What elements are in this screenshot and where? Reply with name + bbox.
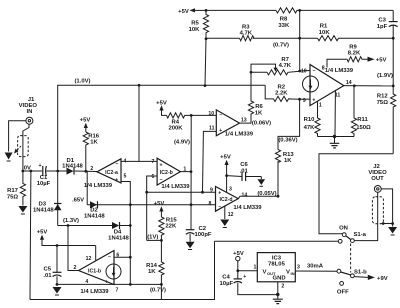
- resistor R1 10K: [318, 24, 339, 41]
- svg-text:47K: 47K: [304, 125, 316, 131]
- +5V terminal for IC2-d: [220, 154, 231, 192]
- capacitor C6 .01: [227, 162, 262, 181]
- svg-text:10: 10: [301, 68, 307, 74]
- svg-text:4.7K: 4.7K: [279, 63, 292, 69]
- svg-text:1/4 LM339: 1/4 LM339: [80, 289, 109, 295]
- svg-text:IN: IN: [291, 271, 295, 276]
- ground IC2-d pin12: [220, 206, 229, 228]
- svg-text:+: +: [219, 128, 222, 134]
- comparator IC2-d: [209, 187, 263, 218]
- comparator IC2-b: [152, 158, 191, 190]
- svg-text:+5V: +5V: [154, 201, 165, 207]
- svg-text:R13: R13: [283, 152, 295, 158]
- svg-text:ON: ON: [339, 226, 348, 232]
- svg-text:R12: R12: [377, 93, 389, 99]
- terminal +5V circle: [233, 251, 244, 271]
- wire pin11 stub down: [334, 91, 336, 137]
- node feedback left vertical: [30, 170, 33, 173]
- shield dashed J2: [372, 197, 383, 224]
- svg-text:1K: 1K: [148, 269, 156, 275]
- node IC3 gnd / C4: [276, 293, 279, 296]
- wire J1 tip stem: [23, 124, 29, 171]
- node R7 left / R6 top: [250, 71, 253, 74]
- svg-text:9: 9: [210, 188, 213, 194]
- svg-text:IC2-a: IC2-a: [105, 170, 118, 176]
- diode D1 1N4148: [62, 158, 83, 175]
- node (1V) R15/R14: [160, 239, 163, 242]
- +5V arrow for R16: [80, 118, 91, 133]
- svg-text:10K: 10K: [189, 27, 201, 33]
- node rail/IC2-a pin4 drop: [138, 84, 141, 87]
- svg-text:R11: R11: [357, 117, 368, 123]
- svg-text:1/4 LM339: 1/4 LM339: [161, 184, 190, 190]
- node X top rail / R8 right: [298, 9, 301, 12]
- wire (1V) branch: [147, 239, 162, 241]
- svg-text:14: 14: [346, 80, 352, 86]
- node IC2-b output: [190, 170, 193, 173]
- svg-text:1N4148: 1N4148: [84, 213, 105, 219]
- svg-text:+5V: +5V: [376, 57, 387, 63]
- svg-text:75Ω: 75Ω: [7, 194, 19, 200]
- svg-text:R5: R5: [191, 20, 199, 26]
- label (0.7V): [273, 42, 289, 48]
- svg-text:+: +: [38, 163, 41, 169]
- svg-text:.65V: .65V: [72, 197, 84, 203]
- node +5V / C4: [236, 269, 239, 272]
- svg-text:R6: R6: [255, 104, 263, 110]
- svg-text:22K: 22K: [165, 223, 177, 229]
- wire rail down to pin4 line: [138, 85, 140, 161]
- resistor R8 33K: [276, 8, 297, 29]
- svg-text:3: 3: [297, 265, 300, 271]
- resistor R12 750: [377, 86, 396, 154]
- node X mid (R3/R1 junction): [298, 37, 301, 40]
- capacitor C4 10uF: [220, 271, 278, 295]
- svg-text:IN: IN: [27, 109, 33, 115]
- svg-text:10K: 10K: [319, 30, 331, 36]
- +5V arrow for IC1-b: [37, 229, 96, 245]
- label (0.7V): [150, 288, 166, 294]
- wire long left feedback down: [29, 171, 32, 300]
- connector J1 VIDEO IN: [19, 97, 38, 124]
- wire R12 bottom across and down to S1-a ON: [319, 154, 393, 234]
- svg-text:3: 3: [229, 187, 232, 193]
- svg-text:1K: 1K: [284, 158, 292, 164]
- svg-text:11: 11: [209, 126, 215, 132]
- svg-text:−: −: [115, 161, 118, 167]
- wire pin11 net from below: [203, 131, 217, 192]
- svg-text:13: 13: [241, 117, 247, 123]
- svg-text:−: −: [218, 204, 221, 210]
- svg-text:+5V: +5V: [178, 9, 189, 15]
- node pin7/feedback vertical: [129, 283, 132, 286]
- wire D2 anode feed: [86, 171, 87, 204]
- svg-text:R8: R8: [280, 17, 288, 23]
- wire right edge down to output node: [392, 38, 394, 86]
- svg-text:.01: .01: [240, 168, 249, 174]
- node rail / D3: [56, 170, 59, 173]
- wire node X vertical: [299, 10, 301, 71]
- node D4/pin5 vertical: [129, 224, 132, 227]
- resistor R7 body: [251, 70, 300, 75]
- node (1V) net / pin9 branch: [145, 191, 148, 194]
- comparator mid (LM339 c): [208, 110, 253, 137]
- op-amp IC1-a: [301, 65, 354, 109]
- regulator IC3 78L05: [257, 253, 295, 282]
- node pin11 net joins: [201, 191, 204, 194]
- wire IC1-a output: [344, 85, 393, 87]
- node output right: [392, 85, 395, 88]
- label .65V: [72, 197, 84, 203]
- svg-text:100pF: 100pF: [194, 232, 211, 238]
- svg-text:(0.7V): (0.7V): [273, 42, 289, 48]
- svg-text:6: 6: [152, 174, 155, 180]
- resistor R6 1K: [248, 72, 263, 123]
- svg-text:R3: R3: [242, 24, 250, 30]
- node pin9 / R2 right: [298, 98, 301, 101]
- svg-text:5: 5: [124, 174, 127, 180]
- svg-text:10: 10: [208, 111, 214, 117]
- wire IC3 pin1 out: [238, 265, 257, 271]
- svg-text:−: −: [108, 254, 111, 260]
- wire IC2-a pin5 feedback: [121, 182, 130, 285]
- wire pin6 stub: [147, 176, 157, 240]
- svg-text:30mA: 30mA: [307, 263, 324, 269]
- wire J1 shield to ground: [9, 121, 26, 152]
- wire (1.0V) rail: [58, 85, 266, 171]
- label 0V: [24, 165, 31, 171]
- switch S1-a: [338, 226, 366, 244]
- svg-text:J2: J2: [373, 164, 380, 170]
- resistor R11 150: [351, 86, 371, 137]
- svg-text:IC1-b: IC1-b: [88, 268, 101, 274]
- svg-text:R17: R17: [7, 188, 19, 194]
- wire R10/R11 bottom: [318, 136, 355, 138]
- ground J2: [388, 227, 397, 235]
- node rail/R5: [204, 84, 207, 87]
- ground J1 shield: [5, 153, 13, 162]
- +5V arrow for R4: [156, 100, 167, 115]
- label (1.3V): [63, 218, 79, 224]
- node pin7/R14: [160, 283, 163, 286]
- wire bottom rail: [30, 241, 215, 299]
- node J2 shield tap: [382, 222, 385, 225]
- svg-text:GND: GND: [273, 275, 286, 281]
- svg-text:1N4148: 1N4148: [33, 208, 54, 214]
- wire S1-a lower contact line: [215, 240, 339, 242]
- node R4 / IC2-b output vertical: [190, 114, 193, 117]
- svg-text:14: 14: [242, 192, 248, 198]
- wire pin9 node down to R13 jog: [278, 99, 300, 149]
- svg-text:200K: 200K: [168, 126, 183, 132]
- svg-text:1: 1: [254, 265, 257, 271]
- shield dashed J1: [14, 136, 28, 157]
- label (0.36V): [278, 138, 297, 144]
- label (1V): [147, 234, 158, 240]
- label (1.0V): [74, 78, 90, 84]
- label (4.9V): [174, 140, 190, 146]
- svg-text:+5V: +5V: [37, 229, 48, 235]
- svg-text:1K: 1K: [255, 110, 263, 116]
- wire pin10 mid comparator: [191, 114, 216, 116]
- svg-text:C3: C3: [378, 17, 386, 23]
- node output 14: [353, 84, 356, 87]
- svg-text:V: V: [286, 269, 290, 275]
- svg-text:R9: R9: [349, 44, 357, 50]
- svg-text:C6: C6: [240, 162, 248, 168]
- svg-text:(1.3V): (1.3V): [63, 218, 79, 224]
- node ground stem: [333, 135, 336, 138]
- svg-text:+5V: +5V: [220, 154, 231, 160]
- svg-text:7: 7: [116, 287, 119, 293]
- svg-text:1/4 LM339: 1/4 LM339: [233, 205, 262, 211]
- node J1 / R17: [22, 170, 25, 173]
- svg-text:C5: C5: [44, 266, 52, 272]
- svg-text:R4: R4: [172, 119, 180, 125]
- svg-text:7: 7: [152, 159, 155, 165]
- wire IC3 pin2 gnd: [278, 282, 285, 295]
- svg-text:C4: C4: [222, 275, 230, 281]
- svg-text:+: +: [312, 98, 315, 104]
- wire R14 down to bottom rail: [160, 284, 162, 299]
- svg-text:+9V: +9V: [377, 276, 388, 282]
- wire y38 R3/R1 line: [206, 37, 393, 39]
- svg-text:(1.0V): (1.0V): [74, 78, 90, 84]
- svg-text:10µF: 10µF: [220, 281, 234, 287]
- svg-text:2: 2: [281, 284, 284, 290]
- svg-text:78L05: 78L05: [268, 262, 285, 268]
- svg-text:1/4 LM339: 1/4 LM339: [84, 183, 113, 189]
- svg-text:.01: .01: [43, 273, 52, 279]
- node pin10: [298, 70, 301, 73]
- diode D4 1N4148: [108, 222, 129, 241]
- wire (1.3V) line: [58, 225, 131, 227]
- svg-text:8: 8: [209, 201, 212, 207]
- node +5V / C6 branch: [225, 174, 228, 177]
- svg-text:+: +: [218, 191, 221, 197]
- resistor R16 1K: [83, 132, 100, 171]
- ground C5: [53, 287, 62, 295]
- capacitor C2 100pF: [186, 226, 212, 242]
- trimmer R7 4.7K wiper loop: [251, 57, 292, 72]
- switch S1-b: [337, 269, 367, 295]
- svg-text:R10: R10: [304, 117, 316, 123]
- svg-text:2.2K: 2.2K: [275, 91, 288, 97]
- svg-text:+5V: +5V: [80, 118, 91, 124]
- svg-text:150Ω: 150Ω: [356, 125, 371, 131]
- node (1.3V)/IC1-b out: [67, 224, 70, 227]
- wire pin10 entry: [300, 70, 310, 73]
- wire J2 sleeve down: [381, 189, 392, 227]
- ground (below IC1-a): [330, 137, 340, 148]
- wire pin4 bottom line: [57, 283, 114, 285]
- resistor R5 10K: [189, 10, 209, 38]
- svg-text:VIDEO: VIDEO: [368, 170, 387, 176]
- wire S1-a pole to J2 tip: [354, 192, 377, 240]
- resistor R2 2.2K: [265, 85, 299, 102]
- svg-text:S1-b: S1-b: [354, 270, 367, 276]
- svg-text:1N4148: 1N4148: [108, 235, 129, 241]
- svg-text:(0.36V): (0.36V): [278, 138, 297, 144]
- svg-text:(1.9V): (1.9V): [377, 73, 393, 79]
- svg-text:12: 12: [228, 212, 234, 218]
- svg-text:−: −: [159, 177, 162, 183]
- svg-text:1pF: 1pF: [377, 24, 388, 30]
- resistor R17 75: [7, 171, 26, 200]
- resistor R15 22K: [159, 217, 178, 240]
- wire R13 bottom to output: [277, 161, 279, 196]
- node R5 bottom junction: [205, 37, 208, 40]
- node sleeve/shield: [391, 222, 394, 225]
- op-amp IC1-b: [74, 251, 121, 295]
- svg-text:−: −: [219, 112, 222, 118]
- svg-text:33K: 33K: [278, 23, 290, 29]
- diode D3 1N4148: [33, 171, 62, 226]
- wire pin7 line: [114, 283, 161, 285]
- node pin6/feedback vertical: [129, 256, 132, 259]
- node D2/pin5 vertical: [129, 203, 132, 206]
- resistor R13 1K: [275, 150, 294, 197]
- resistor R3 4.7K: [240, 24, 254, 41]
- svg-text:4.7K: 4.7K: [240, 30, 253, 36]
- svg-text:OUT: OUT: [371, 176, 384, 182]
- svg-text:75Ω: 75Ω: [377, 100, 389, 106]
- ground R17: [18, 200, 27, 215]
- svg-text:+: +: [115, 177, 118, 183]
- svg-text:1N4148: 1N4148: [62, 164, 83, 170]
- capacitor C1 10uF: [37, 163, 51, 187]
- svg-text:+: +: [243, 274, 246, 280]
- svg-text:10µF: 10µF: [37, 181, 51, 187]
- wire top +5V rail: [206, 9, 393, 11]
- wire pin9 entry: [300, 98, 310, 100]
- node C5 top: [56, 244, 59, 247]
- resistor R4 200K: [167, 113, 192, 132]
- svg-text:(0.7V): (0.7V): [150, 288, 166, 294]
- svg-text:R7: R7: [281, 57, 289, 63]
- wire pin9 line: [147, 191, 216, 193]
- svg-text:1: 1: [319, 102, 322, 108]
- svg-text:1/4 LM339: 1/4 LM339: [225, 131, 254, 137]
- wire output 13 to R6: [240, 122, 252, 124]
- resistor R9 8.2K to +5V: [327, 44, 387, 67]
- svg-text:8.2K: 8.2K: [348, 51, 361, 57]
- +5V arrow for R15: [154, 201, 165, 217]
- wire pin12 stub: [95, 246, 97, 261]
- svg-text:1K: 1K: [90, 139, 98, 145]
- connector J2 VIDEO OUT: [368, 164, 387, 193]
- node C5 bottom: [56, 283, 59, 286]
- wire IC1-b output to (1.3V): [68, 226, 79, 271]
- wire pin6 stub IC1-b: [114, 256, 130, 258]
- svg-text:1/4 LM339: 1/4 LM339: [325, 68, 354, 74]
- svg-text:IC3: IC3: [272, 255, 282, 261]
- ground C2: [186, 242, 195, 250]
- wire shield tap to ground line: [383, 223, 392, 225]
- ground IC3: [273, 295, 283, 304]
- ground C6: [258, 177, 266, 187]
- diode D2 1N4148: [84, 201, 216, 219]
- svg-text:IC2-d: IC2-d: [220, 197, 233, 203]
- node D2 line / IC2-b out vertical: [190, 203, 193, 206]
- label (1.9V): [377, 73, 393, 79]
- wire R5 vertical down to video rail: [205, 39, 206, 86]
- wire IC2-d output: [238, 196, 278, 198]
- svg-text:(0.05V): (0.05V): [257, 191, 276, 197]
- wire IC2-b output: [180, 171, 191, 173]
- wire IC2-a pin4 line to IC2-b pin7: [121, 160, 157, 162]
- wire IC2-b output vertical (R4 to C2): [190, 115, 192, 229]
- node pin2 / R16 / D2 feed: [84, 170, 87, 173]
- label (0.05V): [257, 191, 276, 197]
- svg-text:IC2-b: IC2-b: [160, 170, 173, 176]
- svg-text:(1V): (1V): [147, 234, 158, 240]
- svg-text:S1-a: S1-a: [354, 232, 367, 238]
- svg-text:R1: R1: [320, 24, 328, 30]
- resistor R14 1K: [146, 240, 164, 284]
- svg-text:12: 12: [86, 256, 92, 262]
- wire main video line: [23, 170, 97, 173]
- node R13 bottom / output: [277, 195, 280, 198]
- svg-text:(4.9V): (4.9V): [174, 140, 190, 146]
- switch gang dashed link: [350, 244, 352, 273]
- label (0.06V): [252, 120, 271, 126]
- +5V supply arrow (top left): [178, 8, 206, 15]
- svg-text:V: V: [263, 269, 267, 275]
- svg-text:R2: R2: [278, 85, 286, 91]
- capacitor C3 1pF: [377, 10, 398, 38]
- node R5 top: [205, 9, 208, 12]
- svg-text:2: 2: [74, 265, 77, 271]
- node C3 bottom / R1 right: [392, 37, 395, 40]
- svg-text:OFF: OFF: [337, 289, 349, 295]
- svg-text:(0.06V): (0.06V): [252, 120, 271, 126]
- resistor R10 47K: [304, 101, 321, 136]
- svg-text:C1: C1: [40, 175, 48, 181]
- svg-text:2: 2: [90, 166, 93, 172]
- comparator IC2-a: [84, 158, 127, 189]
- svg-text:−: −: [312, 68, 315, 74]
- svg-text:+: +: [159, 162, 162, 168]
- capacitor C5 .01: [43, 246, 61, 285]
- wire IC3 pin3 in: [295, 263, 337, 271]
- wire S1-b pole to +9V: [354, 275, 387, 282]
